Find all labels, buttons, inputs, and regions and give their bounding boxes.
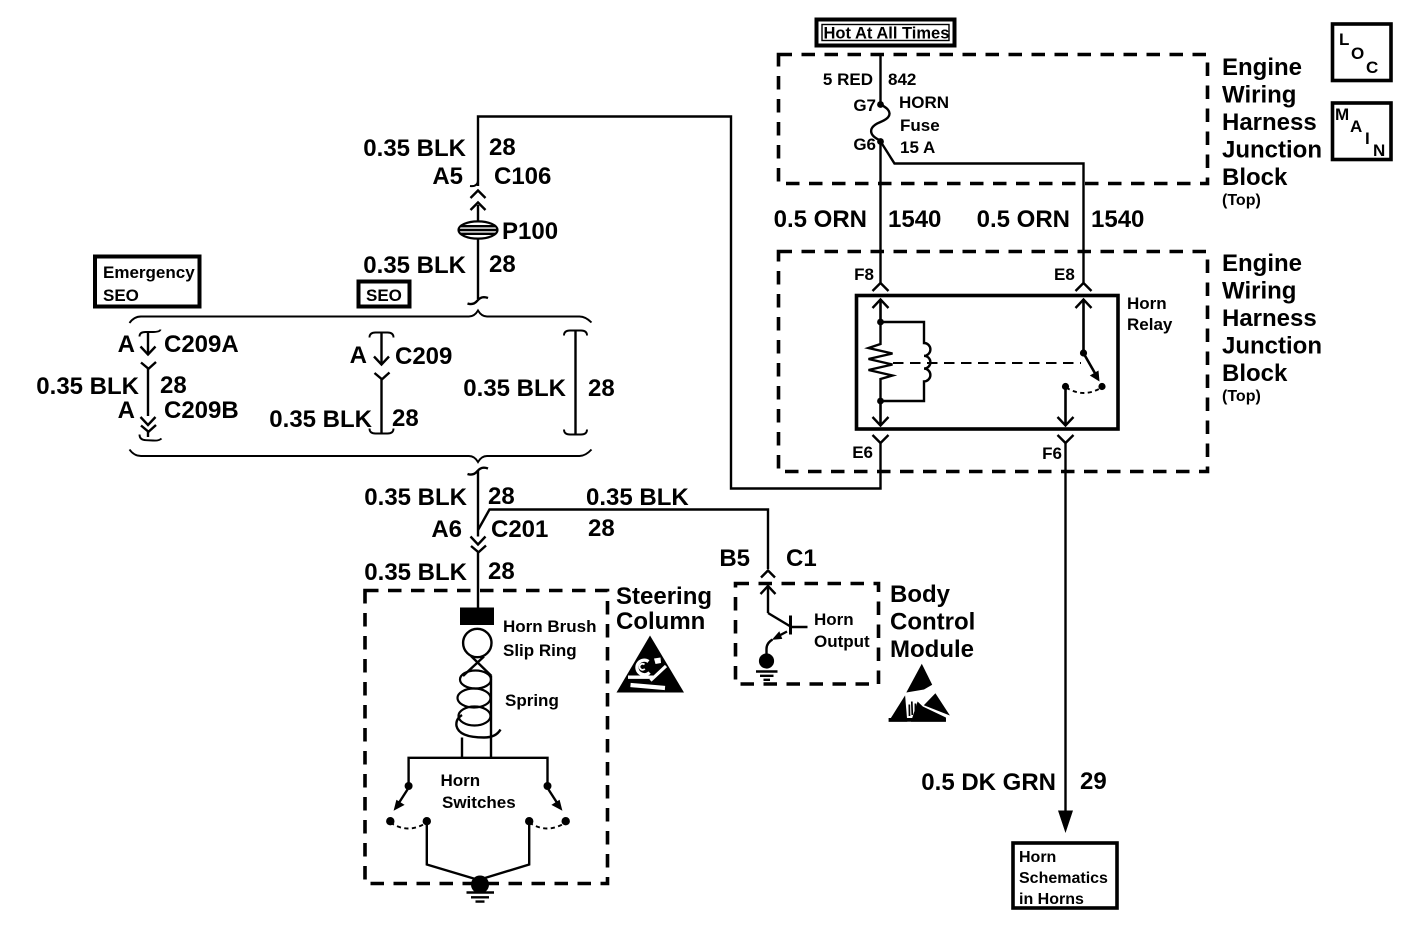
wire: G6 branch to E8 [882,143,1084,283]
svg-text:C106: C106 [494,163,551,190]
pin E8 connector chevron [1076,283,1092,291]
node: left inner contact [423,817,431,825]
svg-text:Horn: Horn [814,610,854,629]
wire: C201 into steering column [477,552,479,608]
svg-text:0.5 ORN: 0.5 ORN [977,206,1070,233]
svg-text:SEO: SEO [103,286,139,305]
label Horn Switches [441,771,516,812]
brace lower (splice merge) [130,450,592,463]
svg-text:Block: Block [1222,164,1288,191]
svg-text:0.35 BLK: 0.35 BLK [364,484,467,511]
horn switch header bar [409,758,548,786]
svg-text:28: 28 [588,375,615,402]
svg-text:Horn: Horn [441,771,481,790]
svg-text:28: 28 [489,134,516,161]
svg-text:(Top): (Top) [1222,192,1261,209]
junction block 1 name [1222,54,1322,209]
svg-text:Harness: Harness [1222,109,1317,136]
svg-text:N: N [1373,141,1385,160]
label box: SEO [359,282,410,307]
svg-text:C209A: C209A [164,331,239,358]
pin F8 connector chevron [873,283,889,291]
caution triangle icon (steering) [617,636,685,693]
junction block 2 dashed box [779,252,1208,472]
svg-text:28: 28 [160,372,187,399]
svg-text:E6: E6 [852,443,873,462]
svg-text:C: C [1366,58,1378,77]
steering column name [616,583,712,635]
branch C209A/C209B top bar [140,330,161,337]
wire right branch [574,331,576,435]
svg-text:29: 29 [1080,768,1107,795]
pin F6 connector chevron [1058,435,1074,443]
wire: battery feed into fuse [879,53,881,103]
svg-text:Steering: Steering [616,583,712,610]
svg-text:C209B: C209B [164,397,239,424]
BCM input arrow [761,585,776,613]
pin E6 connector chevron [873,435,889,443]
connector C201 symbol (arrow + chevron) [471,537,487,553]
steering column dashed box [365,591,608,884]
relay coil L1 [881,322,931,401]
svg-text:0.35 BLK: 0.35 BLK [269,406,372,433]
svg-text:F8: F8 [854,265,874,284]
svg-text:Wiring: Wiring [1222,278,1296,305]
svg-text:28: 28 [392,405,419,432]
svg-text:O: O [1351,44,1364,63]
label Horn Brush Slip Ring [503,617,597,660]
relay pin 30 arrow up (right top) [1076,299,1092,350]
svg-text:0.35 BLK: 0.35 BLK [586,484,689,511]
ground symbol (BCM) [756,672,778,680]
svg-text:1540: 1540 [1091,206,1144,233]
resistor (relay suppression) [869,322,893,401]
spring coil [456,671,500,759]
svg-text:G7: G7 [853,96,876,115]
node: coil top junction [877,319,884,326]
svg-text:0.5 ORN: 0.5 ORN [774,206,867,233]
branch C209 bottom bar [370,429,394,434]
horn brush (filled block) [460,608,494,626]
wire: F6 down to horns [1058,443,1073,833]
svg-text:Horn: Horn [1127,294,1167,313]
svg-text:Engine: Engine [1222,54,1302,81]
splice tail squiggle (top) [468,297,489,304]
relay pin 87 arrow down (right bottom) [1058,387,1074,426]
relay switch arm with arrow [1084,354,1100,382]
node: right inner contact [525,817,533,825]
svg-text:Schematics: Schematics [1019,870,1108,887]
connector C1 chevron [761,571,775,578]
relay actuation dashed link [893,362,1081,364]
branch C209A/B bottom hook [140,435,162,441]
svg-text:E8: E8 [1054,265,1075,284]
slip ring circle [463,629,491,657]
fuse HORN 15A (S-curve element) [871,105,889,141]
node: switch arm end [1098,383,1105,390]
svg-text:Control: Control [890,609,975,636]
wire: branch to BCM [478,510,768,570]
BCM name [890,581,975,663]
connector C209 symbol (arrow + chevron) [374,333,390,380]
ground symbol (steering) [467,893,495,902]
wire: G6 down to F8 [879,142,881,283]
svg-text:Junction: Junction [1222,137,1322,164]
node: coil bottom junction [877,398,884,405]
BCM dashed box [736,584,879,685]
svg-text:A6: A6 [431,516,462,543]
node: left switch pivot [405,782,413,790]
svg-text:1540: 1540 [888,206,941,233]
svg-text:0.35 BLK: 0.35 BLK [36,373,139,400]
svg-text:A5: A5 [432,163,463,190]
relay pin 86 arrow up (left top) [873,299,889,322]
svg-text:5 RED: 5 RED [823,70,873,89]
branch right top bar [564,331,587,336]
svg-text:A: A [350,342,367,369]
destination box: Horn Schematics in Horns [1013,843,1117,908]
svg-text:Output: Output [814,632,870,651]
svg-text:Spring: Spring [505,691,559,710]
dashed travel arc [1066,388,1102,394]
svg-text:G6: G6 [853,135,876,154]
node: relay output contact [1062,383,1069,390]
grommet P100 [459,221,498,238]
ground node (BCM) [759,653,774,668]
wires: switch contacts to ground point [427,821,529,879]
svg-text:0.35 BLK: 0.35 BLK [363,135,466,162]
node G7 [877,101,884,108]
spring crossover X [463,656,492,676]
svg-text:Harness: Harness [1222,305,1317,332]
svg-text:Relay: Relay [1127,315,1173,334]
svg-text:Horn: Horn [1019,849,1056,866]
svg-text:28: 28 [488,483,515,510]
svg-text:Switches: Switches [442,793,516,812]
svg-text:0.35 BLK: 0.35 BLK [364,559,467,586]
svg-text:Junction: Junction [1222,333,1322,360]
right switch arm arrow [549,790,563,811]
wire: E6 to junction loop back to C106 branch [478,117,881,489]
svg-text:0.35 BLK: 0.35 BLK [363,252,466,279]
svg-text:Body: Body [890,581,951,608]
horn output driver symbol [767,613,808,654]
relay U1 box [857,296,1119,430]
branch right bottom bar [564,430,587,435]
wire: splice to C201 [477,470,479,537]
svg-text:in Horns: in Horns [1019,891,1084,908]
svg-text:Slip Ring: Slip Ring [503,641,577,660]
label box: Emergency SEO [95,257,200,307]
svg-text:B5: B5 [719,545,750,572]
node G6 [877,138,884,145]
label Horn Output [814,610,870,651]
svg-text:Fuse: Fuse [900,116,940,135]
brace upper (splice spread) [130,311,592,324]
svg-text:0.35 BLK: 0.35 BLK [463,375,566,402]
ESD triangle icon (BCM) [889,664,950,722]
svg-text:Horn Brush: Horn Brush [503,617,597,636]
svg-text:28: 28 [588,515,615,542]
connector C209A symbol (arrow + chevron) [141,332,157,369]
wire between C209A and C209B [147,369,149,416]
node: left outer contact [386,817,394,825]
svg-text:L: L [1339,30,1349,49]
svg-text:0.5 DK GRN: 0.5 DK GRN [921,769,1056,796]
svg-text:SEO: SEO [366,286,402,305]
junction block 2 name [1222,250,1322,405]
connector C106 symbol (hook + double chevron) [470,181,486,210]
connector C209B symbol (arrow + chevron) [141,417,157,437]
svg-text:Block: Block [1222,360,1288,387]
branch C209 top bar [370,333,394,338]
fuse name text [899,93,949,157]
svg-text:A: A [1350,117,1362,136]
label box: Hot At All Times [817,20,955,46]
svg-text:C209: C209 [395,343,452,370]
svg-text:F6: F6 [1042,444,1062,463]
svg-text:C201: C201 [491,516,548,543]
dashed arc right switch [529,823,566,829]
svg-text:Wiring: Wiring [1222,82,1296,109]
node: right switch pivot [544,782,552,790]
svg-text:Emergency: Emergency [103,263,195,282]
node: switch pivot [1080,349,1087,356]
svg-text:28: 28 [489,251,516,278]
svg-text:28: 28 [488,558,515,585]
node: right outer contact [562,817,570,825]
svg-text:M: M [1335,105,1349,124]
svg-text:Column: Column [616,608,705,635]
svg-text:Module: Module [890,636,974,663]
ground node (steering) [471,876,489,894]
relay name Horn Relay [1127,294,1173,334]
wire below C209 [380,379,382,433]
svg-text:HORN: HORN [899,93,949,112]
grid ref box LOC [1333,24,1392,81]
svg-text:P100: P100 [502,218,558,245]
svg-text:A: A [118,397,135,424]
svg-text:(Top): (Top) [1222,388,1261,405]
wire: C106 to P100 [477,205,479,222]
svg-text:Hot At All Times: Hot At All Times [824,25,950,43]
splice tail squiggle (bottom) [468,468,489,475]
left switch arm arrow [394,790,408,811]
svg-text:I: I [1365,129,1370,148]
relay pin 85 arrow down (left bottom) [873,401,889,426]
svg-text:C1: C1 [786,545,817,572]
junction block 1 dashed box [779,55,1208,184]
svg-text:842: 842 [888,70,916,89]
svg-text:Engine: Engine [1222,250,1302,277]
grid ref box MAIN [1333,103,1392,160]
svg-text:A: A [118,331,135,358]
wire: P100 down to splice spread [477,238,479,299]
dashed arc left switch [390,823,427,829]
svg-text:15 A: 15 A [900,138,935,157]
